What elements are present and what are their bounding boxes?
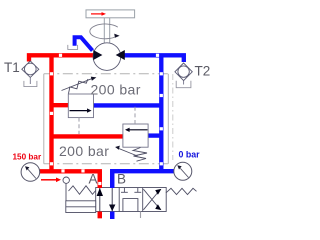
enclosure manifold boundary: [44, 74, 169, 164]
red command arrow: [41, 178, 61, 183]
wire: bottom red line from gauge, corner to port A: [40, 171, 100, 218]
svg-text:T2: T2: [195, 64, 211, 79]
port B internal path: [111, 188, 113, 212]
valve left spring: [69, 186, 96, 195]
shaft: [104, 18, 109, 43]
wire: top red line with T1 corner: [29, 55, 93, 61]
svg-text:B: B: [117, 172, 126, 187]
proportional solenoid box: [66, 201, 96, 213]
wire: main blue vertical: [159, 55, 163, 171]
port A line into valve: [98, 171, 102, 188]
link circle to solenoid: [65, 183, 67, 200]
junction dots: [50, 54, 163, 185]
port T stub below valve: [110, 212, 114, 220]
load rectangle M: [86, 10, 135, 18]
svg-text:T1: T1: [4, 60, 20, 75]
port A internal path: [99, 188, 101, 212]
port B line into valve: [110, 171, 114, 188]
drain tank: [68, 45, 78, 50]
hydraulic motor: [93, 43, 121, 71]
valve internal arrows left position: [97, 188, 103, 196]
check valve T2: [175, 63, 192, 88]
pressure gauge left: [21, 163, 40, 182]
centerline dashed vertical: [172, 74, 174, 160]
wire: case drain blue: [75, 37, 93, 50]
rotation arrow ellipse: [90, 24, 118, 39]
directional valve 4/3: [96, 188, 167, 212]
wire: lower red line to RV2: [52, 134, 124, 138]
valve right position crossed arrows: [143, 189, 161, 210]
pressure gauge right: [174, 162, 192, 180]
command input circle: [63, 177, 69, 183]
unused port stub: [140, 212, 142, 219]
svg-text:150 bar: 150 bar: [13, 152, 42, 161]
wire: bottom blue line to port B and gauge: [112, 171, 174, 219]
svg-text:0 bar: 0 bar: [179, 150, 201, 160]
wire: red stub to relief valve RV1: [52, 103, 69, 107]
valve dividers: [119, 188, 143, 212]
svg-text:A: A: [89, 172, 98, 187]
relief valve RV2: [115, 106, 148, 161]
check valve T1: [22, 61, 39, 87]
valve middle position blocked ports: [121, 188, 141, 211]
svg-text:200 bar: 200 bar: [91, 82, 141, 98]
wire: top blue line with T2 corner: [124, 55, 184, 62]
wire: blue out of RV1: [94, 103, 162, 107]
wire: main red vertical: [49, 55, 53, 171]
valve right spring: [166, 188, 197, 194]
relief valve RV1: [62, 77, 97, 134]
wire: blue stub RV2: [148, 133, 161, 137]
svg-text:200 bar: 200 bar: [59, 143, 109, 159]
red arrow in load: [91, 12, 106, 16]
port P stub below valve: [98, 212, 102, 219]
